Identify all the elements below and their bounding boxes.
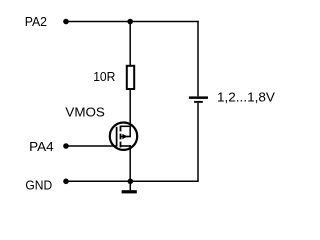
- ground stub wire: [129, 181, 131, 190]
- resistor R1 body: [127, 66, 134, 89]
- node PA4 pin dot: [63, 143, 69, 149]
- svg-text:1,2...1,8V: 1,2...1,8V: [217, 89, 275, 104]
- wire right rail top (to battery +): [197, 21, 199, 97]
- svg-text:10R: 10R: [93, 69, 115, 84]
- battery B1 positive plate: [189, 96, 208, 99]
- battery B1 negative plate: [194, 101, 203, 103]
- transistor Q1 gate line: [116, 127, 118, 147]
- wire top rail from PA2 pin to right rail: [66, 21, 199, 23]
- node PA2 pin dot: [63, 19, 69, 25]
- ground bar symbol: [122, 190, 137, 193]
- transistor Q1 bulk arrow: [122, 134, 127, 139]
- wire from transistor source down to bottom rail: [129, 145, 131, 181]
- wire from resistor bottom to transistor drain/bulk junction: [129, 90, 131, 137]
- transistor Q1 drain connection: [121, 125, 131, 127]
- svg-text:GND: GND: [25, 177, 52, 192]
- svg-text:PA4: PA4: [29, 139, 53, 154]
- wire bottom GND rail: [66, 180, 199, 182]
- transistor Q1 channel segment bottom: [120, 142, 122, 148]
- junction top (drain branch tap): [127, 19, 133, 25]
- transistor Q1 body circle: [110, 123, 137, 150]
- svg-text:VMOS: VMOS: [65, 105, 105, 120]
- junction bottom (ground tap): [128, 179, 134, 185]
- transistor Q1 bulk line: [121, 136, 131, 138]
- svg-text:PA2: PA2: [25, 14, 47, 29]
- node GND pin dot: [63, 179, 69, 185]
- transistor Q1 source connection: [121, 145, 131, 147]
- wire from top junction down to resistor: [129, 22, 131, 66]
- transistor Q1 channel segment top: [120, 126, 122, 132]
- transistor Q1 channel segment middle: [120, 134, 122, 140]
- wire right rail bottom (battery - to GND rail): [197, 103, 199, 182]
- wire PA4 pin to gate: [66, 145, 117, 147]
